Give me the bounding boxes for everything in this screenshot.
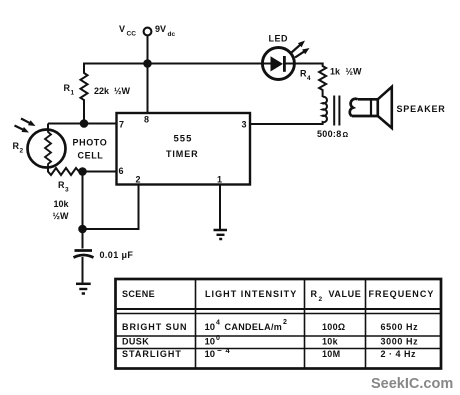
transformer ratio label 500:8 ohm xyxy=(317,129,349,139)
speaker driver box xyxy=(352,99,378,116)
LED circle xyxy=(262,48,294,80)
svg-text:0: 0 xyxy=(216,335,220,342)
svg-text:500:8: 500:8 xyxy=(317,129,342,139)
junction Vcc rail xyxy=(143,59,152,68)
svg-text:3: 3 xyxy=(65,187,69,194)
svg-text:10M: 10M xyxy=(322,349,340,359)
row1 light intensity 10^4 CANDELA/m2 xyxy=(205,319,288,333)
svg-text:555: 555 xyxy=(174,134,193,145)
photocell internal resistor zigzag xyxy=(45,131,51,168)
wire photocell top lead xyxy=(47,124,49,133)
svg-text:8: 8 xyxy=(144,115,149,125)
svg-text:BRIGHT SUN: BRIGHT SUN xyxy=(122,322,188,332)
svg-text:½W: ½W xyxy=(346,67,363,77)
junction pin2 wire xyxy=(78,225,87,234)
wire Vcc rail left xyxy=(83,63,262,65)
transformer T1 primary coil xyxy=(322,97,327,124)
svg-text:Ω: Ω xyxy=(343,132,349,139)
R3 value 10k 1/2W xyxy=(53,199,70,221)
R4 label xyxy=(300,69,311,83)
svg-text:CELL: CELL xyxy=(78,151,104,161)
svg-text:R: R xyxy=(58,180,65,190)
svg-text:DUSK: DUSK xyxy=(122,336,149,346)
svg-text:VALUE: VALUE xyxy=(329,289,362,299)
table header rule 2 xyxy=(115,313,442,315)
svg-text:LED: LED xyxy=(269,34,289,44)
svg-text:10: 10 xyxy=(205,337,216,348)
speaker horn xyxy=(378,87,392,128)
svg-text:V: V xyxy=(119,24,125,34)
LED cathode bar xyxy=(283,56,286,72)
svg-text:1: 1 xyxy=(217,175,222,185)
wire Vcc vertical xyxy=(147,36,149,64)
table column divider 3 xyxy=(365,279,367,368)
svg-text:dc: dc xyxy=(168,31,176,38)
svg-text:R: R xyxy=(311,289,318,299)
LED diode triangle xyxy=(271,56,284,71)
svg-text:FREQUENCY: FREQUENCY xyxy=(369,289,435,299)
svg-text:SCENE: SCENE xyxy=(122,289,155,299)
wire Vcc rail right of LED xyxy=(295,63,324,65)
svg-text:6: 6 xyxy=(119,166,124,176)
table row rule 1 xyxy=(115,335,442,337)
svg-text:R: R xyxy=(300,69,307,79)
svg-text:CC: CC xyxy=(127,31,137,38)
svg-text:2: 2 xyxy=(319,296,323,303)
wire pin 2 xyxy=(83,185,139,230)
wire to pin 7 xyxy=(48,123,117,125)
wire pin 8 xyxy=(147,64,149,114)
Vcc terminal circle xyxy=(144,28,152,36)
svg-text:½W: ½W xyxy=(53,211,70,221)
photocell arrow 2 xyxy=(15,126,30,133)
svg-text:½W: ½W xyxy=(114,86,131,96)
LED anode lead xyxy=(263,63,271,65)
svg-text:1: 1 xyxy=(71,90,75,97)
resistor R1 xyxy=(81,64,88,124)
table column divider 1 xyxy=(195,279,197,368)
table outer border xyxy=(116,279,442,369)
svg-text:SPEAKER: SPEAKER xyxy=(397,104,446,114)
junction R3/pin6 xyxy=(78,167,87,176)
op 555 timer box U1 xyxy=(117,113,251,185)
row2 light intensity 10^0 xyxy=(205,335,221,348)
svg-text:2: 2 xyxy=(136,175,141,185)
resistor R4 xyxy=(319,63,326,98)
transformer core lines xyxy=(334,96,339,126)
table column divider 2 xyxy=(304,279,306,368)
junction R1/photocell/pin7 xyxy=(80,119,89,128)
svg-text:2: 2 xyxy=(20,148,24,155)
svg-text:1k: 1k xyxy=(330,67,341,77)
svg-text:TIMER: TIMER xyxy=(166,149,199,159)
photocell R2 circle xyxy=(28,130,66,168)
ground pin 1 xyxy=(214,230,228,239)
wire pin 1 xyxy=(219,185,221,230)
svg-text:−: − xyxy=(217,346,222,355)
svg-text:PHOTO: PHOTO xyxy=(73,138,108,148)
svg-text:SeekIC.com: SeekIC.com xyxy=(371,376,453,392)
svg-text:2: 2 xyxy=(283,319,287,326)
capacitor C1 0.01uF xyxy=(74,251,94,258)
svg-text:10: 10 xyxy=(205,349,216,360)
svg-text:22k: 22k xyxy=(94,86,110,96)
LED cathode lead xyxy=(285,63,294,65)
svg-text:3: 3 xyxy=(242,120,247,130)
PHOTO CELL label xyxy=(73,138,108,161)
svg-text:4: 4 xyxy=(216,320,220,327)
wire pin 3 xyxy=(250,123,323,125)
ground below capacitor xyxy=(76,284,91,294)
row3 light intensity 10^-4 xyxy=(205,346,231,360)
svg-text:100Ω: 100Ω xyxy=(322,322,345,332)
9Vdc label xyxy=(155,24,175,38)
svg-text:9V: 9V xyxy=(155,24,166,34)
svg-text:7: 7 xyxy=(119,120,124,130)
resistor R3 xyxy=(48,167,79,176)
table header rule 1 xyxy=(115,308,442,310)
svg-text:6500 Hz: 6500 Hz xyxy=(381,322,419,332)
R3 label xyxy=(58,180,69,194)
table row rule 2 xyxy=(115,348,442,350)
LED arrow 2 xyxy=(295,48,310,58)
svg-text:CANDELA/m: CANDELA/m xyxy=(225,322,283,332)
svg-text:2 · 4 Hz: 2 · 4 Hz xyxy=(381,349,417,359)
wire R3 junction down to capacitor xyxy=(82,172,84,249)
wire capacitor to ground xyxy=(82,257,84,283)
svg-text:4: 4 xyxy=(307,75,311,82)
svg-text:R: R xyxy=(13,141,20,151)
R1 label xyxy=(64,83,75,97)
svg-text:LIGHT INTENSITY: LIGHT INTENSITY xyxy=(205,289,297,299)
svg-text:R: R xyxy=(64,83,71,93)
svg-text:10k: 10k xyxy=(54,199,70,209)
svg-text:STARLIGHT: STARLIGHT xyxy=(122,349,182,359)
svg-text:0.01 μF: 0.01 μF xyxy=(100,250,134,260)
Vcc label xyxy=(119,24,136,38)
header R2 VALUE xyxy=(311,289,362,303)
svg-text:10: 10 xyxy=(205,322,216,333)
R2 label xyxy=(13,141,24,155)
svg-text:10k: 10k xyxy=(322,336,339,346)
LED arrow 1 xyxy=(292,41,306,53)
wire to pin 6 xyxy=(83,171,117,173)
photocell arrow 1 xyxy=(21,119,36,127)
speaker voice coil xyxy=(350,99,358,116)
svg-text:3000 Hz: 3000 Hz xyxy=(381,336,419,346)
